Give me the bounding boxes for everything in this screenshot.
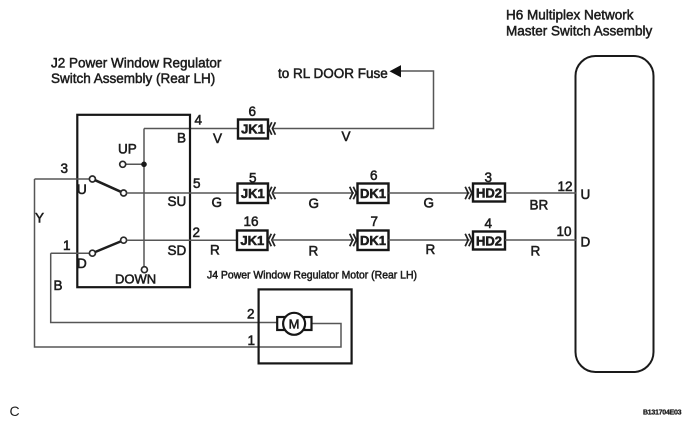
svg-text:5: 5 (249, 171, 257, 186)
svg-text:SD: SD (168, 243, 187, 258)
wire G DK1 to HD2 (389, 192, 470, 194)
switch pivot D (89, 250, 95, 256)
svg-text:HD2: HD2 (476, 233, 502, 248)
svg-text:UP: UP (118, 142, 137, 157)
svg-text:D: D (581, 235, 591, 250)
connector DK1 pin 6 box (358, 184, 389, 204)
svg-text:V: V (342, 129, 351, 144)
svg-text:G: G (424, 196, 435, 211)
wire BR HD2 to master switch (505, 192, 576, 194)
wire R HD2 to master switch (505, 239, 576, 241)
chevrons DK1 row2 (350, 187, 357, 200)
junction dot (141, 162, 147, 168)
svg-text:R: R (531, 244, 541, 259)
svg-text:4: 4 (485, 216, 493, 231)
wire SU to JK1 (127, 192, 238, 194)
connector JK1 pin 6 box (238, 120, 268, 139)
DOWN contact terminal (141, 267, 147, 273)
svg-text:to RL DOOR Fuse: to RL DOOR Fuse (278, 66, 388, 81)
motor box J4 (259, 289, 352, 363)
wire B to motor pin 2 (51, 253, 278, 322)
UP contact line (126, 163, 144, 165)
svg-text:Y: Y (35, 211, 44, 226)
motor M1 body (283, 313, 305, 335)
wire D pivot to pin 1 (51, 252, 90, 254)
svg-text:3: 3 (485, 170, 493, 185)
svg-text:M: M (289, 317, 300, 332)
chevrons JK1 row1 (269, 122, 276, 135)
svg-text:16: 16 (244, 214, 259, 229)
svg-text:JK1: JK1 (240, 233, 264, 248)
switch contact SD (121, 237, 127, 243)
svg-text:R: R (309, 244, 319, 259)
svg-text:1: 1 (63, 238, 71, 253)
connector HD2 pin 3 box (473, 184, 505, 202)
chevrons HD2 row2 (465, 187, 472, 200)
switch arm D (95, 241, 121, 252)
svg-text:B131704E03: B131704E03 (643, 410, 682, 417)
svg-text:D: D (77, 256, 87, 271)
svg-text:G: G (212, 195, 223, 210)
switch arm U (95, 180, 121, 192)
svg-text:2: 2 (193, 225, 201, 240)
connector JK1 pin 16 box (237, 231, 268, 251)
svg-text:DOWN: DOWN (115, 272, 156, 287)
svg-text:U: U (77, 182, 87, 197)
svg-text:5: 5 (193, 176, 201, 191)
connector HD2 pin 4 box (473, 232, 505, 250)
connector JK1 pin 5 box (238, 184, 269, 204)
svg-text:6: 6 (249, 104, 257, 119)
svg-text:SU: SU (168, 194, 187, 209)
svg-text:4: 4 (195, 113, 203, 128)
svg-text:12: 12 (558, 179, 573, 194)
chevrons JK1 row2 (269, 187, 276, 200)
svg-text:H6 Multiplex Network: H6 Multiplex Network (506, 8, 634, 23)
svg-text:DK1: DK1 (360, 233, 386, 248)
svg-text:J2 Power Window Regulator: J2 Power Window Regulator (51, 56, 222, 71)
svg-text:DK1: DK1 (360, 186, 386, 201)
svg-text:Switch Assembly (Rear LH): Switch Assembly (Rear LH) (51, 71, 215, 86)
wire V to RL DOOR fuse (273, 71, 434, 129)
chevrons DK1 row3 (350, 234, 357, 247)
svg-text:HD2: HD2 (476, 185, 502, 200)
svg-text:Master Switch Assembly: Master Switch Assembly (506, 24, 653, 39)
wire U pivot to pin 3 (35, 178, 90, 180)
master switch assembly body H6 (576, 56, 654, 372)
svg-text:G: G (309, 196, 320, 211)
motor M1 terminals (277, 317, 311, 330)
svg-text:BR: BR (530, 198, 549, 213)
svg-text:JK1: JK1 (241, 186, 265, 201)
svg-text:R: R (210, 243, 220, 258)
svg-text:1: 1 (248, 333, 256, 348)
svg-text:B: B (177, 131, 186, 146)
switch contact SU (121, 190, 127, 196)
wire SD to JK1 (127, 239, 237, 241)
svg-text:JK1: JK1 (241, 122, 265, 137)
arrow to RL DOOR fuse (391, 66, 401, 77)
svg-text:B: B (54, 278, 63, 293)
switch pivot U (89, 176, 95, 182)
chevrons JK1 row3 (268, 234, 275, 247)
svg-text:2: 2 (247, 307, 255, 322)
chevrons HD2 row3 (465, 234, 472, 247)
wire Y to motor pin 1 (35, 179, 342, 347)
svg-text:R: R (426, 242, 436, 257)
wire G JK1 to DK1 (273, 192, 355, 194)
switch assembly box J2 (77, 115, 190, 287)
internal bus wire (143, 129, 145, 267)
connector DK1 pin 7 box (358, 231, 389, 251)
svg-text:C: C (10, 403, 20, 419)
svg-text:10: 10 (557, 224, 572, 239)
svg-text:3: 3 (61, 161, 69, 176)
svg-text:V: V (213, 131, 222, 146)
label J2 Power Window Regulator Switch Assembly title (51, 56, 222, 87)
svg-text:J4 Power Window Regulator Moto: J4 Power Window Regulator Motor (Rear LH… (207, 270, 417, 282)
UP contact terminal (120, 161, 126, 167)
wire R DK1 to HD2 (389, 239, 470, 241)
wire R JK1 to DK1 (272, 239, 354, 241)
svg-text:6: 6 (370, 168, 378, 183)
node B wire pin4 to JK1 (144, 128, 238, 130)
svg-text:7: 7 (371, 214, 379, 229)
svg-text:U: U (581, 187, 591, 202)
label H6 Multiplex Network Master Switch Assembly title (506, 8, 653, 39)
